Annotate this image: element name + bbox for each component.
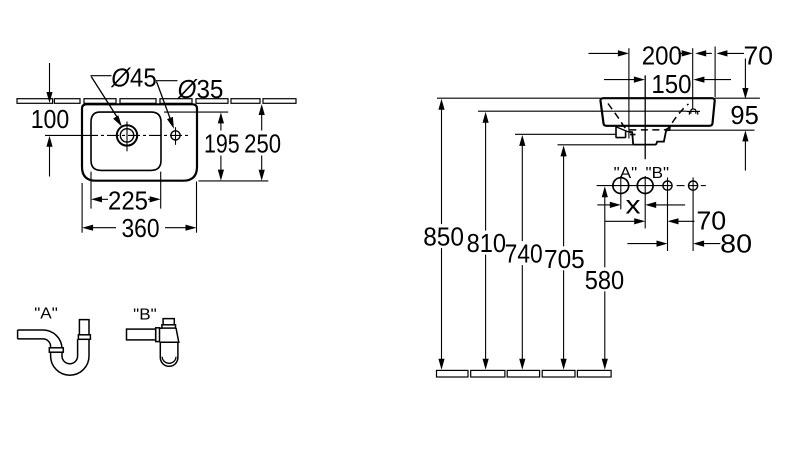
tap hole detail (front view): [687, 109, 700, 115]
svg-text:Ø35: Ø35: [177, 74, 224, 104]
fixing hole small circle 2: [689, 178, 698, 252]
extension line tap level (810): [478, 110, 687, 112]
svg-text:250: 250: [244, 129, 281, 159]
inner bowl outline (plan view): [91, 112, 161, 170]
svg-text:x: x: [626, 190, 641, 220]
dimension 250 (wall to basin front): [244, 104, 281, 181]
wall section band (plan view): [17, 99, 296, 104]
svg-text:360: 360: [121, 213, 159, 243]
washbasin outline (front view): [600, 98, 714, 126]
svg-text:95: 95: [730, 100, 758, 130]
svg-text:580: 580: [585, 265, 624, 295]
fixing hole "A" circle: [613, 176, 629, 209]
dimension 100 (wall to centerline): [31, 63, 70, 177]
svg-text:80: 80: [720, 229, 752, 259]
dimension x (hole spacing A-B): [597, 190, 685, 220]
dimension 580 (floor to level): [585, 186, 624, 370]
dimension 200 (top row): [589, 41, 693, 71]
svg-text:"A": "A": [34, 306, 58, 323]
extension line basin bottom edge: [199, 180, 269, 182]
faucet hole Ø45 (double circle with crosshair): [117, 122, 137, 152]
svg-text:705: 705: [544, 244, 585, 274]
dimension 70 (hole spacing): [605, 206, 726, 236]
fixing hole small circle 1: [663, 178, 672, 252]
tap hole Ø35 (circle with crosshair): [171, 127, 180, 145]
svg-text:850: 850: [423, 222, 464, 252]
dimension 80 (hole spacing): [627, 229, 752, 259]
dimension 225 (bowl width): [91, 172, 161, 216]
drain centerline at x=645.2: [644, 75, 646, 159]
extension line 705 level: [558, 144, 634, 146]
dimension 850 (floor to level): [423, 99, 464, 370]
svg-text:740: 740: [505, 239, 543, 269]
label "A" (fixing hole): [614, 165, 638, 182]
label "B" (fixing hole): [646, 165, 670, 182]
svg-text:"B": "B": [133, 307, 157, 324]
siphon A compression nut (upper): [78, 335, 90, 340]
svg-text:Ø45: Ø45: [110, 63, 156, 93]
svg-text:200: 200: [642, 41, 682, 71]
dimension 810 (floor to level): [467, 112, 506, 370]
washbasin outer outline (plan view): [82, 104, 197, 180]
siphon A compression nut (lower): [49, 348, 63, 352]
label "B" (siphon variant): [133, 307, 157, 324]
hidden bowl contour (dashed): [608, 104, 689, 130]
dimension 95 (rim to fixing level): [730, 59, 758, 171]
label Ø45 with leader arrow: [91, 63, 157, 127]
dimension 740 (floor to level): [505, 135, 543, 370]
fixing hole "B" circle: [637, 176, 653, 228]
fixing holes centerline: [597, 185, 706, 187]
extension line 740 level: [515, 133, 616, 135]
svg-text:"A": "A": [614, 165, 638, 182]
dimension 70 (top row): [695, 41, 773, 71]
svg-text:"B": "B": [646, 165, 670, 182]
floor section band: [437, 370, 612, 377]
dimension 150: [604, 69, 731, 99]
svg-text:70: 70: [744, 41, 774, 71]
extension line at x=692.7: [692, 48, 694, 109]
extension line 95 bottom level: [666, 129, 755, 131]
siphon A (P-trap) outline: [18, 320, 89, 376]
extension line at x=715.1: [714, 47, 716, 98]
dimension 360 (basin width): [82, 182, 196, 244]
horizontal centerline through holes: [45, 134, 190, 136]
svg-text:810: 810: [467, 228, 506, 258]
extension line at x=628.9: [628, 48, 630, 138]
overflow outlet detail (left, below basin): [616, 127, 636, 138]
svg-text:195: 195: [204, 129, 240, 159]
label Ø35 with leader arrow: [156, 74, 224, 129]
extension line rim level (850): [437, 97, 760, 99]
dimension 705 (floor to level): [544, 145, 585, 369]
drain boss outline (below basin): [629, 126, 671, 144]
siphon B (bottle trap) outline: [127, 319, 179, 367]
dimension 195 (bowl top to basin bottom): [204, 112, 240, 180]
extension line bowl top edge: [164, 111, 228, 113]
svg-text:100: 100: [31, 104, 70, 134]
label "A" (siphon variant): [34, 306, 58, 323]
svg-text:150: 150: [651, 69, 691, 99]
svg-text:225: 225: [108, 186, 148, 216]
